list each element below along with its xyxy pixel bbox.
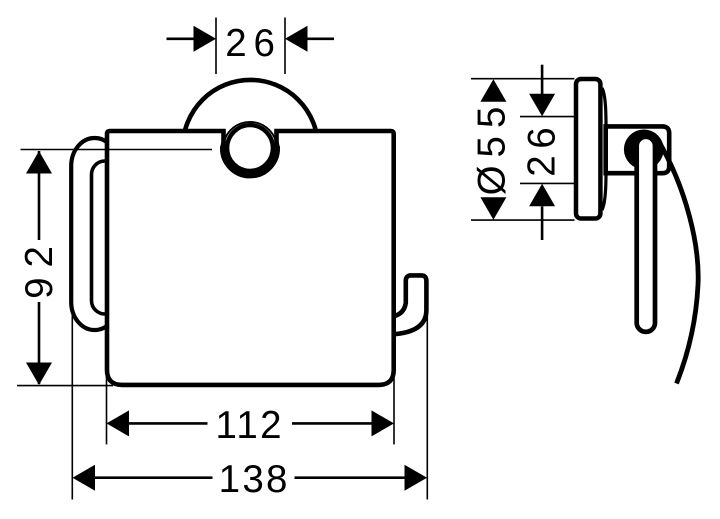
dimension 26 top: left extension line — [215, 18, 217, 75]
side view: arm capsule — [637, 137, 655, 332]
dimension 26 side: up arrowhead — [529, 184, 555, 207]
dimension 112: right arrowhead — [372, 410, 395, 436]
dimension 138: left extension line — [71, 310, 73, 500]
side view: pivot block — [606, 126, 670, 173]
svg-text:26: 26 — [225, 22, 281, 65]
dimension 26 side: top extension line — [520, 116, 575, 118]
front view: pivot housing solid lower band — [223, 146, 277, 175]
dimension 26 top: right extension line — [284, 18, 286, 75]
front view: roll-bar right hook — [392, 275, 426, 334]
svg-text:26: 26 — [520, 121, 563, 177]
svg-text:138: 138 — [219, 458, 290, 501]
dimension 92: dimension line lower segment — [38, 302, 41, 384]
dimension 138: dimension line right segment — [295, 476, 407, 479]
svg-text:92: 92 — [18, 236, 61, 299]
dimension diameter 55: down arrowhead — [480, 197, 506, 220]
front view: wall-plate dome behind cover — [183, 80, 318, 215]
side view: wall plate — [576, 79, 600, 219]
dimension 138: left arrowhead — [73, 465, 96, 491]
dimension 112: left arrowhead — [107, 410, 130, 436]
svg-text:112: 112 — [216, 404, 284, 447]
dimension 112: dimension line left segment — [127, 422, 208, 425]
dimension 26 side: upper leader tail — [541, 65, 544, 96]
dimension 138: right arrowhead — [405, 465, 428, 491]
dimension 138: right extension line — [426, 316, 428, 500]
dimension 138: dimension line left segment — [93, 476, 213, 479]
front view: pivot knob thin top arc — [224, 122, 276, 142]
dimension 26 top: right arrowhead — [285, 26, 308, 52]
side view: curved roll bar — [658, 140, 698, 384]
side view: pivot disc — [624, 130, 664, 170]
front view: roll-bar left bracket outer outline — [71, 138, 118, 330]
dimension 92: top extension line — [21, 149, 213, 151]
dimension 26 side: bottom extension line — [520, 182, 575, 184]
dimension diameter 55: up arrowhead — [480, 79, 506, 102]
dimension 92: dimension line upper segment — [38, 151, 41, 240]
dimension 26 top: left arrowhead — [194, 26, 217, 52]
front view: roll-bar left bracket inner outline — [92, 161, 119, 314]
dimension 92: up arrowhead — [26, 151, 52, 174]
dimension 92: bottom extension line — [17, 385, 113, 387]
dimension diameter 55: bottom extension line — [471, 219, 575, 221]
dimension 92: down arrowhead — [26, 363, 52, 386]
dimension 26 top: left leader tail — [167, 37, 194, 40]
dimension 112: right extension line — [393, 368, 395, 444]
dimension 26 side: lower leader tail — [541, 206, 544, 240]
dimension 112: left extension line — [106, 375, 108, 444]
dimension 112: dimension line right segment — [292, 422, 373, 425]
dimension diameter 55: top extension line — [471, 78, 575, 80]
front view: cover plate with pivot notch — [107, 131, 394, 385]
front view: pivot knob ring — [227, 125, 273, 171]
dimension 26 top: right leader tail — [307, 37, 334, 40]
svg-text:Ø55: Ø55 — [471, 99, 514, 196]
side view: plate convex face arc — [602, 88, 606, 210]
dimension 26 side: down arrowhead — [529, 94, 555, 117]
